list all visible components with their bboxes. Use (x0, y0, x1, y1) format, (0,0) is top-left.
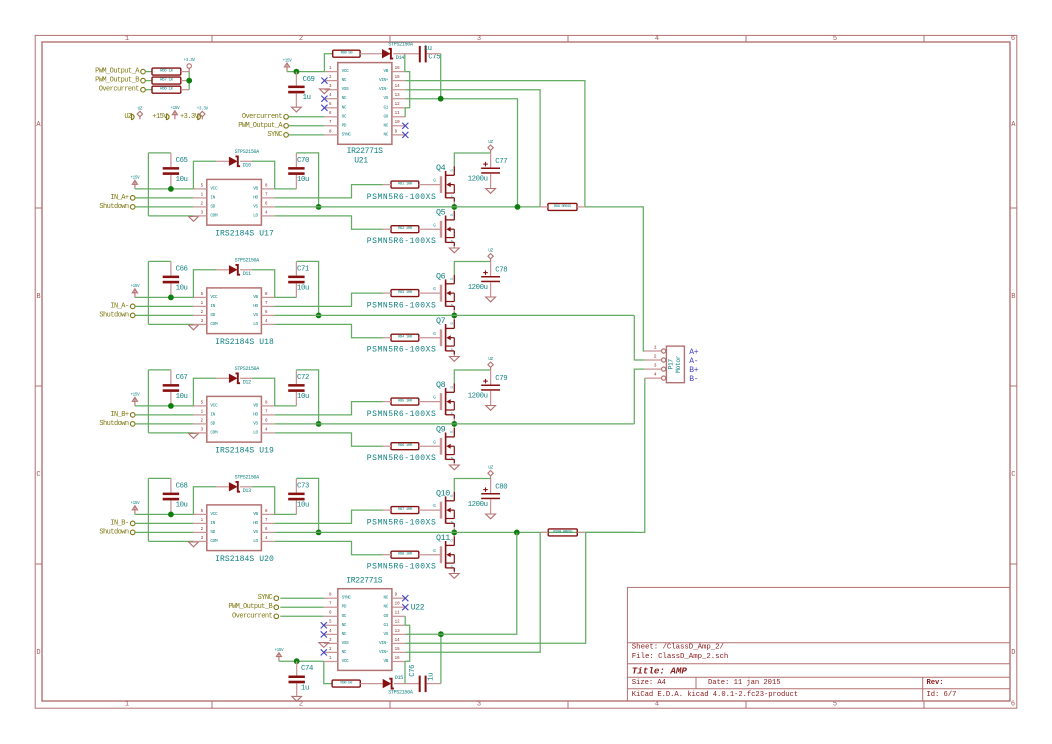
svg-text:PSMN5R6-100XS: PSMN5R6-100XS (367, 563, 437, 572)
resistor R100 0R015 (548, 529, 577, 536)
svg-text:+3.3V: +3.3V (184, 59, 196, 63)
row letters (36, 121, 1016, 657)
svg-text:10: 10 (395, 121, 401, 125)
R100 leads (540, 531, 586, 533)
transistor Q10 PSMN5R6-100XS (433, 492, 454, 527)
svg-text:SD: SD (210, 204, 215, 209)
wire (280, 597, 324, 599)
svg-text:d: d (450, 277, 453, 282)
wire (275, 531, 635, 533)
power UZ at C77 (488, 145, 493, 153)
svg-text:B+: B+ (689, 366, 698, 375)
svg-text:VIN-: VIN- (379, 87, 388, 92)
svg-text:IN_A+: IN_A+ (110, 194, 129, 202)
wire (148, 369, 171, 371)
wire (148, 152, 171, 154)
R88 lead (181, 89, 189, 91)
ground at Q9 (449, 465, 459, 470)
svg-text:1: 1 (201, 519, 204, 523)
wire (147, 261, 149, 324)
svg-text:3: 3 (201, 320, 204, 324)
svg-text:UZ: UZ (488, 467, 493, 471)
svg-text:R99 0R015: R99 0R015 (554, 205, 572, 209)
wire (252, 378, 275, 406)
hierarchical label Shutdown (99, 528, 135, 536)
hierarchical label PWM_Output_A (95, 68, 145, 76)
svg-text:VB: VB (253, 512, 258, 517)
Q11 source lead (453, 572, 455, 574)
svg-text:PSMN5R6-100XS: PSMN5R6-100XS (367, 454, 437, 463)
ground at C69 (292, 107, 302, 112)
hierarchical label PWM_Output_A (238, 122, 288, 130)
svg-text:Q8: Q8 (436, 380, 446, 390)
hierarchical label Shutdown (99, 420, 135, 428)
wire (275, 433, 383, 446)
ground at C74 (292, 696, 302, 701)
svg-text:SD: SD (210, 530, 215, 535)
svg-text:1: 1 (329, 67, 332, 71)
svg-text:STPS2150A: STPS2150A (388, 42, 413, 48)
wire (193, 378, 216, 406)
svg-text:P17: P17 (667, 359, 674, 370)
svg-text:SYNC: SYNC (342, 132, 352, 137)
power +15V U19 (132, 397, 137, 406)
svg-text:2: 2 (299, 701, 303, 709)
hierarchical label Overcurrent (242, 113, 289, 121)
svg-text:IN: IN (210, 412, 215, 417)
diode D11 anode lead (216, 269, 229, 271)
svg-text:11: 11 (395, 112, 401, 116)
junction phase U17 (451, 204, 457, 210)
svg-text:Overcurrent: Overcurrent (99, 86, 140, 94)
U22 pin numbers (329, 594, 400, 661)
svg-text:16: 16 (395, 657, 401, 661)
svg-text:STPS2150A: STPS2150A (235, 366, 260, 372)
wire (440, 634, 442, 683)
hierarchical label Overcurrent (232, 612, 279, 620)
wire (296, 153, 318, 207)
svg-text:6: 6 (265, 419, 268, 423)
svg-text:HO: HO (253, 521, 258, 526)
svg-text:IRS2184S U18: IRS2184S U18 (215, 338, 274, 347)
svg-text:6: 6 (329, 612, 332, 616)
wire (275, 185, 383, 198)
svg-text:+15V: +15V (274, 649, 284, 653)
wire (275, 188, 297, 190)
svg-text:VSS: VSS (342, 87, 350, 92)
svg-text:10u: 10u (297, 502, 309, 510)
svg-text:G1: G1 (384, 623, 389, 628)
wire (296, 370, 318, 424)
svg-text:IN_B-: IN_B- (110, 519, 129, 527)
junction C76-VS (438, 631, 444, 637)
svg-text:PWM_Output_B: PWM_Output_B (95, 77, 139, 85)
svg-text:VS: VS (253, 421, 258, 426)
svg-text:Size: A4: Size: A4 (632, 679, 666, 687)
svg-text:STPS2150A: STPS2150A (388, 690, 413, 696)
svg-text:NC: NC (342, 105, 347, 110)
wire (405, 81, 585, 207)
svg-text:R100 0R015: R100 0R015 (553, 530, 573, 534)
svg-text:C78: C78 (495, 266, 507, 274)
svg-text:C66: C66 (176, 266, 188, 274)
svg-text:B: B (1011, 293, 1015, 301)
resistor R90 50 (332, 680, 360, 687)
svg-text:D12: D12 (243, 379, 251, 385)
svg-text:SYNC: SYNC (342, 596, 352, 601)
svg-text:4: 4 (655, 35, 659, 43)
wire (275, 216, 383, 229)
svg-text:4: 4 (265, 537, 268, 541)
svg-text:12: 12 (395, 621, 401, 625)
capacitor C70 leads (295, 153, 297, 189)
transistor Q4 PSMN5R6-100XS (433, 166, 454, 201)
hierarchical label PWM_Output_B (228, 603, 278, 611)
svg-text:8: 8 (329, 130, 332, 134)
svg-text:SD: SD (210, 313, 215, 318)
ground at U19 COM (189, 434, 199, 439)
svg-text:4: 4 (265, 320, 268, 324)
svg-text:1: 1 (125, 35, 129, 43)
wire (135, 296, 194, 298)
svg-text:+3.3V: +3.3V (197, 107, 209, 111)
capacitor C71 10u (288, 266, 310, 293)
svg-text:Title: AMP: Title: AMP (632, 665, 688, 676)
svg-text:R88 1k: R88 1k (160, 87, 174, 92)
svg-text:3: 3 (477, 35, 481, 43)
svg-text:Sheet: /ClassD_Amp_2/: Sheet: /ClassD_Amp_2/ (632, 644, 725, 652)
svg-text:R94 10R: R94 10R (398, 336, 413, 340)
no-connect U22 pin 9 (402, 595, 408, 601)
resistor R97 10R (391, 507, 419, 514)
svg-text:STPS2150A: STPS2150A (235, 475, 260, 481)
svg-text:1u: 1u (303, 94, 311, 102)
svg-text:5: 5 (201, 293, 204, 297)
no-connect U21 pin 10 (402, 123, 408, 129)
wire (275, 296, 297, 298)
hierarchical label SYNC (267, 131, 288, 139)
no-connect U22 pin 5 (321, 622, 327, 628)
svg-text:Shutdown: Shutdown (99, 203, 129, 211)
R86 lead (181, 71, 189, 73)
capacitor C74 leads (296, 661, 298, 696)
ground at Q11 (449, 574, 459, 579)
svg-text:UZ: UZ (138, 107, 143, 111)
svg-text:+3.3V: +3.3V (180, 113, 200, 121)
svg-text:NC: NC (342, 96, 347, 101)
R87 lead (181, 80, 189, 82)
svg-text:1: 1 (125, 701, 129, 709)
wire (135, 314, 193, 316)
svg-text:Overcurrent: Overcurrent (232, 612, 273, 620)
svg-text:6: 6 (1011, 701, 1015, 709)
junction (186, 78, 192, 84)
capacitor C68 leads (170, 478, 172, 514)
power +3.3V (187, 64, 191, 72)
hierarchical label PWM_Output_B (95, 77, 145, 85)
diode D10 anode lead (216, 160, 229, 162)
svg-text:C71: C71 (297, 266, 310, 274)
capacitor C73 10u (288, 483, 309, 510)
svg-text:IRS2184S U20: IRS2184S U20 (215, 555, 274, 564)
hierarchical label IN_A- (110, 302, 135, 310)
svg-text:8: 8 (265, 293, 268, 297)
svg-text:5: 5 (329, 103, 332, 107)
svg-text:C72: C72 (297, 374, 309, 382)
capacitor C72 10u (288, 374, 309, 401)
svg-text:UZ: UZ (488, 141, 493, 145)
svg-text:GO: GO (384, 114, 389, 119)
hierarchical label IN_A+ (110, 194, 135, 202)
wire (634, 315, 645, 360)
svg-text:+15V: +15V (170, 107, 180, 111)
capacitor C74 1u (289, 665, 314, 692)
wire (280, 606, 324, 608)
diode D12 cathode lead (240, 377, 252, 379)
wire (405, 90, 540, 207)
svg-text:C79: C79 (495, 375, 507, 383)
svg-text:1u: 1u (427, 673, 435, 681)
wire (135, 206, 193, 208)
svg-text:Q6: Q6 (436, 272, 446, 282)
resistor R95 10R (391, 398, 419, 405)
svg-text:7: 7 (329, 603, 332, 607)
capacitor C65 10u (163, 157, 188, 184)
svg-text:PD: PD (342, 605, 347, 610)
svg-text:GO: GO (384, 614, 389, 619)
svg-text:2: 2 (201, 202, 204, 206)
column numbers (125, 35, 1015, 709)
svg-text:COM: COM (210, 322, 218, 327)
wire (405, 532, 517, 634)
wire (634, 369, 645, 424)
svg-text:2: 2 (201, 528, 204, 532)
power +15V (172, 111, 177, 120)
resistor R99 0R015 (548, 203, 577, 210)
diode D11 STPS2150A (229, 258, 259, 277)
svg-text:COM: COM (210, 213, 218, 218)
svg-text:d: d (450, 538, 453, 543)
capacitor C66 leads (170, 261, 172, 297)
R98 leads (383, 554, 441, 556)
svg-text:HO: HO (253, 195, 258, 200)
capacitor C67 10u (163, 374, 188, 401)
ground at U22 VSS (319, 643, 329, 648)
svg-text:13: 13 (395, 630, 401, 634)
svg-text:File: ClassD_Amp_2.sch: File: ClassD_Amp_2.sch (632, 653, 728, 661)
diode D12 STPS2150A (229, 366, 259, 385)
svg-text:LO: LO (253, 539, 258, 544)
svg-text:Date: 11 jan 2015: Date: 11 jan 2015 (708, 679, 780, 687)
no-connect U22 pin 2 (321, 649, 327, 655)
svg-text:VB: VB (384, 659, 389, 664)
svg-text:1: 1 (201, 193, 204, 197)
svg-text:LO: LO (253, 430, 258, 435)
svg-text:A: A (1011, 121, 1016, 129)
svg-text:d: d (450, 213, 453, 218)
svg-text:9: 9 (395, 130, 398, 134)
wire (405, 72, 409, 108)
svg-text:R89 50: R89 50 (341, 52, 354, 56)
transistor Q6 PSMN5R6-100XS (433, 275, 454, 310)
svg-text:1200u: 1200u (468, 393, 488, 401)
svg-text:NC: NC (342, 650, 347, 655)
svg-text:SYNC: SYNC (258, 594, 273, 602)
wire (404, 661, 406, 683)
capacitor C68 10u (163, 483, 188, 510)
svg-text:G: G (433, 179, 436, 184)
svg-text:4: 4 (265, 428, 268, 432)
svg-text:7: 7 (265, 193, 268, 197)
wire (148, 432, 193, 434)
transistor Q5 PSMN5R6-100XS (433, 211, 454, 246)
wire (324, 54, 332, 72)
C69 lead (295, 93, 297, 107)
wire (324, 661, 332, 683)
hierarchical label Overcurrent (99, 86, 146, 94)
wire (296, 478, 318, 532)
svg-text:G: G (433, 223, 436, 228)
junction (294, 69, 300, 75)
R94 leads (383, 337, 441, 339)
svg-text:Q10: Q10 (436, 489, 450, 499)
svg-text:5: 5 (201, 401, 204, 405)
svg-text:VS: VS (384, 632, 389, 637)
svg-text:1200u: 1200u (468, 284, 488, 292)
svg-text:D11: D11 (243, 271, 251, 277)
svg-text:U22: U22 (411, 603, 425, 612)
svg-text:R87 1k: R87 1k (160, 78, 174, 83)
ground at U18 COM (189, 325, 199, 330)
svg-text:7: 7 (265, 410, 268, 414)
wire (135, 522, 193, 524)
wire (275, 324, 383, 337)
resistor R86 1k (152, 68, 181, 75)
Q7 drain lead (453, 315, 455, 319)
wire (252, 487, 275, 515)
wire (135, 305, 193, 307)
no-connect U21 pin 5 (321, 105, 327, 111)
svg-text:G: G (433, 504, 436, 509)
svg-text:6: 6 (265, 202, 268, 206)
wire (289, 134, 325, 136)
junction C67-VCC (168, 403, 174, 409)
wire (454, 479, 490, 492)
wire (404, 616, 406, 625)
R89 lead (360, 53, 382, 55)
svg-text:VS: VS (253, 530, 258, 535)
svg-text:R90 50: R90 50 (340, 682, 353, 686)
resistor R89 50 (333, 50, 360, 57)
svg-text:Shutdown: Shutdown (99, 420, 129, 428)
svg-text:1: 1 (654, 344, 657, 350)
svg-text:1200u: 1200u (468, 501, 488, 509)
gate driver U20 IRS2184S body (193, 505, 274, 551)
svg-text:+15V: +15V (130, 394, 140, 398)
svg-text:C75: C75 (428, 54, 440, 62)
svg-text:10: 10 (395, 603, 401, 607)
wire (146, 71, 152, 73)
op-amp U21 IR22771S body (324, 63, 405, 145)
svg-text:VCC: VCC (342, 69, 350, 74)
svg-text:NC: NC (384, 123, 389, 128)
svg-text:PSMN5R6-100XS: PSMN5R6-100XS (367, 346, 437, 355)
svg-text:A-: A- (689, 357, 698, 366)
svg-text:8: 8 (265, 184, 268, 188)
diode D14 STPS2150A (382, 42, 413, 61)
Q5 source lead (453, 246, 455, 248)
hierarchical label UZ (124, 113, 134, 121)
wire (289, 116, 325, 118)
resistor R96 10R (391, 443, 419, 450)
svg-text:10u: 10u (176, 176, 188, 184)
wire (148, 215, 193, 217)
resistor R87 1k (152, 77, 181, 84)
svg-text:VIN+: VIN+ (379, 650, 389, 655)
wire (135, 414, 193, 416)
no-connect U21 pin 9 (402, 132, 408, 138)
svg-text:G: G (433, 287, 436, 292)
wire (440, 54, 442, 99)
svg-text:13: 13 (395, 94, 401, 98)
svg-text:COM: COM (210, 430, 218, 435)
resistor R88 1k (152, 86, 181, 93)
svg-text:2: 2 (201, 311, 204, 315)
svg-text:HO: HO (253, 412, 258, 417)
wire (135, 531, 193, 533)
wire (296, 261, 318, 315)
svg-text:Motor: Motor (675, 355, 682, 373)
svg-text:VS: VS (253, 204, 258, 209)
power +3.3V (200, 111, 205, 119)
resistor R94 10R (391, 334, 419, 341)
svg-text:3: 3 (201, 537, 204, 541)
power +15V U17 (132, 180, 137, 189)
svg-text:PSMN5R6-100XS: PSMN5R6-100XS (367, 193, 437, 202)
svg-text:OC: OC (342, 114, 347, 119)
power +15V U22 (276, 653, 281, 662)
svg-text:Q7: Q7 (436, 316, 446, 326)
junction C68-VCC (168, 512, 174, 518)
svg-text:2: 2 (201, 419, 204, 423)
svg-text:R96 10R: R96 10R (398, 444, 413, 448)
svg-text:10u: 10u (176, 285, 188, 293)
svg-text:C67: C67 (176, 374, 188, 382)
resistor R93 10R (391, 290, 419, 297)
ground at C80 (486, 514, 496, 519)
diode D13 cathode lead (240, 486, 252, 488)
wire (454, 153, 490, 166)
svg-text:G: G (433, 332, 436, 337)
wire (585, 207, 645, 351)
svg-text:1: 1 (201, 410, 204, 414)
gate driver U17 IRS2184S body (193, 179, 274, 225)
power UZ at C78 (488, 254, 493, 262)
svg-text:C77: C77 (495, 158, 507, 166)
wire (148, 323, 193, 325)
resistor R91 10R (391, 181, 419, 188)
Q9 drain lead (453, 424, 455, 428)
svg-text:4: 4 (655, 701, 659, 709)
transistor Q9 PSMN5R6-100XS (433, 428, 454, 463)
svg-text:SYNC: SYNC (267, 131, 282, 139)
R97 leads (383, 509, 441, 511)
D15 cathode lead (394, 683, 419, 685)
junction phase U19 (451, 421, 457, 427)
svg-text:IR22771S: IR22771S (346, 577, 383, 586)
svg-text:16: 16 (395, 67, 401, 71)
svg-text:10u: 10u (297, 285, 309, 293)
